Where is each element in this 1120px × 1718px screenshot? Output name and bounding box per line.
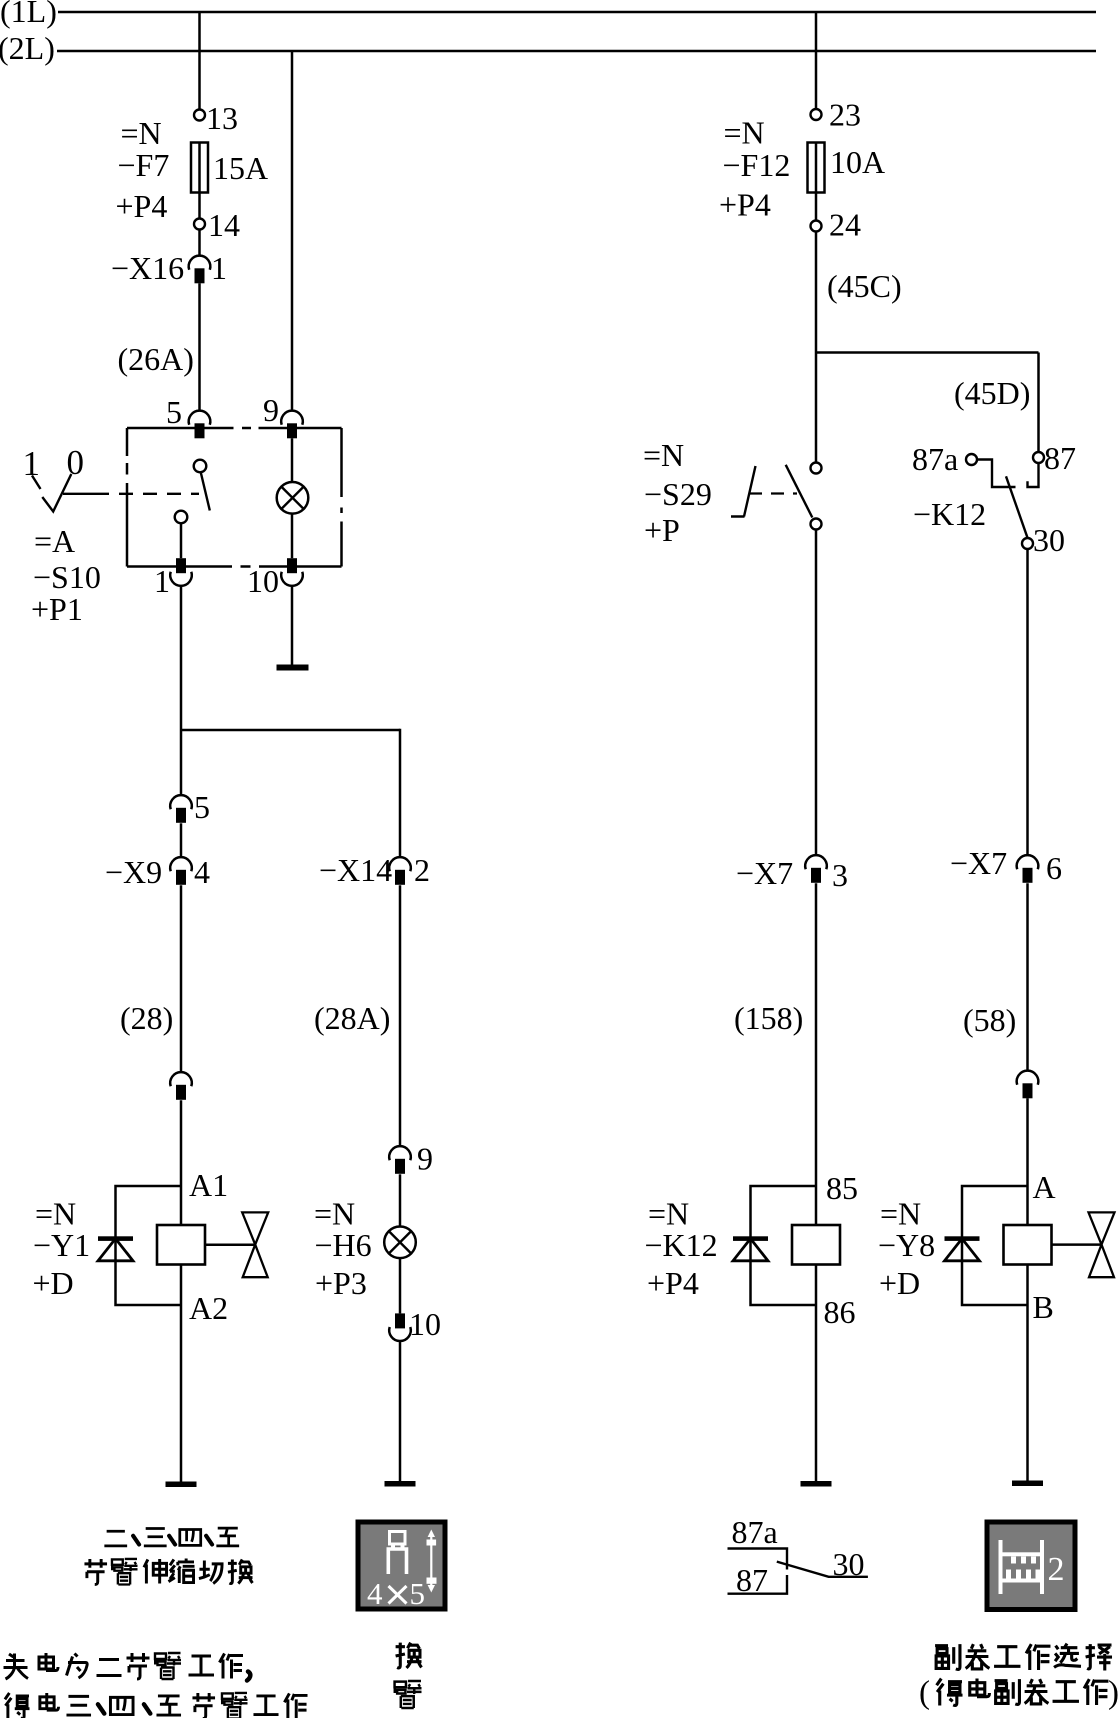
selector actuator symbol — [32, 474, 71, 512]
svg-text:13: 13 — [206, 100, 238, 136]
connector (unnumbered, Y1 branch) — [170, 1072, 192, 1100]
svg-text:4: 4 — [194, 854, 210, 890]
solenoid coil Y1 — [157, 1225, 205, 1265]
wire lamp H6 to connector 10 — [399, 1258, 402, 1313]
wire 14 to connector X16 — [198, 230, 201, 257]
wire 24 down to S29 — [815, 232, 818, 463]
svg-text:−Y1: −Y1 — [33, 1227, 90, 1263]
connector X7 pin 3 — [805, 855, 827, 883]
svg-text:(58): (58) — [963, 1002, 1016, 1038]
svg-text:=N: =N — [121, 115, 162, 151]
svg-text:−H6: −H6 — [315, 1227, 372, 1263]
svg-text:B: B — [1033, 1289, 1054, 1325]
svg-text:+P4: +P4 — [647, 1265, 699, 1301]
wire connector 10 to ground — [399, 1341, 402, 1482]
wire X14 to connector 9 — [399, 885, 402, 1146]
switch S10 contact — [175, 460, 210, 524]
connector pin 9 (H6) — [389, 1146, 411, 1174]
svg-text:+P: +P — [644, 512, 680, 548]
link coil Y1 to valve — [205, 1244, 255, 1247]
wire Y1 to ground — [180, 1265, 183, 1482]
switch S10 enclosure (dash-dot box) — [127, 428, 342, 567]
caption: 副卷工作选择 — [935, 1644, 1112, 1671]
terminal 1 of S10 — [170, 558, 192, 586]
wire lamp to terminal 10 — [291, 514, 294, 559]
svg-text:3: 3 — [832, 857, 848, 893]
svg-text:=N: =N — [643, 437, 684, 473]
connector pin 5 (lower) — [170, 795, 192, 823]
svg-text:5: 5 — [410, 1576, 426, 1611]
svg-text:9: 9 — [417, 1141, 433, 1177]
diode branch loop (Y8) — [962, 1186, 1028, 1305]
indicator lamp in S10 — [277, 482, 309, 514]
caption: 换臂 (change boom) vertical — [395, 1643, 422, 1708]
wire connector to Y8 coil — [1026, 1098, 1029, 1225]
wire terminal 10 to ground — [291, 586, 294, 665]
svg-text:30: 30 — [1033, 522, 1065, 558]
wire connector to Y1 coil — [180, 1100, 183, 1225]
svg-text:+P4: +P4 — [719, 187, 771, 223]
fuse F12 — [808, 143, 825, 193]
lamp H6 — [384, 1227, 416, 1259]
svg-text:−S10: −S10 — [33, 559, 101, 595]
svg-text:5: 5 — [194, 789, 210, 825]
icon: auxiliary winch 2 — [987, 1522, 1075, 1610]
svg-text:5: 5 — [166, 394, 182, 430]
wire connector 9 to lamp H6 — [399, 1174, 402, 1226]
caption: (得电副卷工作) — [919, 1675, 1119, 1711]
svg-text:(28A): (28A) — [314, 1000, 390, 1036]
svg-text:+P4: +P4 — [116, 188, 168, 224]
wire X7-3 to K12 coil — [815, 883, 818, 1225]
connector X16 pin 1 — [189, 256, 211, 284]
wire X16 to switch box — [198, 283, 201, 411]
contact circle 30 — [1022, 538, 1033, 549]
suppressor diode (Y8) — [945, 1236, 980, 1261]
contact circle 87a — [966, 454, 977, 465]
valve symbol (Y1) — [242, 1212, 268, 1277]
svg-text:+P3: +P3 — [315, 1265, 367, 1301]
wire fuse F12 to terminal 24 — [815, 193, 818, 221]
wire fuse F7 to terminal 14 — [198, 193, 201, 219]
svg-text:−K12: −K12 — [913, 496, 986, 532]
svg-text:10: 10 — [247, 563, 279, 599]
svg-text:23: 23 — [829, 97, 861, 133]
svg-text:9: 9 — [263, 392, 279, 428]
wire X9 to lower connector — [180, 885, 183, 1072]
diode branch loop (K12) — [751, 1186, 817, 1305]
connector X7 pin 6 — [1017, 855, 1039, 883]
svg-text:10: 10 — [409, 1306, 441, 1342]
diode branch loop (Y1) — [116, 1186, 182, 1305]
terminal circle 23 — [811, 109, 822, 120]
caption: 节臂伸缩切换 (boom telescope switching) — [84, 1558, 252, 1584]
svg-text:(2L): (2L) — [0, 30, 55, 66]
wire 1L to terminal 23 — [815, 12, 818, 109]
svg-text:6: 6 — [1046, 850, 1062, 886]
ground (H6) — [385, 1481, 416, 1487]
wire 30 to X7-6 — [1026, 549, 1029, 855]
bus 2L — [57, 50, 1096, 53]
function contact blade 30 — [777, 1562, 868, 1577]
svg-text:1: 1 — [211, 250, 227, 286]
link coil Y8 to valve — [1052, 1243, 1102, 1246]
svg-text:+P1: +P1 — [31, 591, 83, 627]
svg-text:(28): (28) — [120, 1000, 173, 1036]
svg-text:85: 85 — [826, 1170, 858, 1206]
valve symbol (Y8) — [1089, 1212, 1115, 1277]
svg-text:24: 24 — [829, 207, 861, 243]
caption: 二、三、四、五 (booms 2,3,4,5) — [104, 1528, 239, 1546]
svg-text:−S29: −S29 — [644, 476, 712, 512]
svg-text:): ) — [1108, 1675, 1119, 1711]
svg-text:−X7: −X7 — [950, 845, 1007, 881]
ground (S10 lamp) — [277, 665, 309, 671]
pushbutton S29 contact — [786, 463, 822, 530]
ground (Y1) — [166, 1482, 197, 1488]
svg-text:87: 87 — [1044, 440, 1076, 476]
svg-text:A2: A2 — [189, 1290, 228, 1326]
svg-text:1: 1 — [154, 563, 170, 599]
contact circle 87 — [1033, 452, 1044, 463]
terminal 10 of S10 — [281, 558, 303, 586]
svg-text:2: 2 — [1048, 1551, 1065, 1588]
svg-text:10A: 10A — [830, 144, 885, 180]
function contact 87 seat — [728, 1575, 788, 1594]
wire terminal 9 to lamp — [291, 438, 294, 482]
svg-text:(45C): (45C) — [827, 268, 902, 304]
caption: 得电三、四、五节臂工作 — [5, 1693, 308, 1718]
relay coil K12 — [792, 1225, 840, 1265]
svg-text:15A: 15A — [213, 150, 268, 186]
ground (K12) — [801, 1481, 832, 1487]
fuse F7 — [191, 143, 208, 193]
svg-text:−X16: −X16 — [111, 250, 184, 286]
svg-text:(158): (158) — [734, 1000, 803, 1036]
connector (unnumbered, Y8 branch) — [1017, 1071, 1039, 1099]
svg-text:−X7: −X7 — [736, 855, 793, 891]
S29 actuator dashed link — [749, 492, 797, 494]
svg-text:87a: 87a — [732, 1514, 778, 1550]
svg-text:−F7: −F7 — [118, 147, 170, 183]
wire S29 to X7-3 — [815, 530, 818, 856]
K12 contact feed drop — [1037, 353, 1040, 452]
suppressor diode (Y1) — [98, 1236, 133, 1261]
svg-text:−F12: −F12 — [723, 147, 791, 183]
svg-text:=A: =A — [34, 523, 75, 559]
wire X7-6 to connector — [1026, 883, 1029, 1070]
wire 2L to terminal 9 — [291, 51, 294, 411]
svg-text:(: ( — [919, 1675, 930, 1711]
connector pin 10 (H6) — [389, 1313, 411, 1341]
svg-text:A1: A1 — [189, 1167, 228, 1203]
svg-text:+D: +D — [33, 1265, 74, 1301]
K12 contact seats — [977, 460, 1015, 488]
wire Y8 to ground — [1026, 1265, 1029, 1481]
suppressor diode (K12) — [733, 1236, 768, 1261]
terminal circle 14 — [194, 219, 205, 230]
function contact 87a seat — [728, 1549, 788, 1570]
wire 1L to terminal 13 — [198, 12, 201, 110]
S29 manual actuator lever — [731, 466, 756, 517]
svg-text:87a: 87a — [912, 441, 958, 477]
svg-text:86: 86 — [824, 1294, 856, 1330]
wire contact to terminal 1 — [180, 523, 183, 558]
wire terminal 1 down — [180, 586, 183, 796]
icon: telescope mode 4x5 — [358, 1522, 445, 1611]
svg-text:−X14: −X14 — [319, 852, 392, 888]
terminal 9 of S10 — [281, 411, 303, 439]
bus 1L — [58, 11, 1096, 14]
svg-text:4: 4 — [367, 1576, 383, 1611]
terminal circle 24 — [811, 221, 822, 232]
K12 contact blade — [1006, 476, 1028, 538]
svg-text:(26A): (26A) — [118, 341, 194, 377]
terminal circle 13 — [194, 110, 205, 121]
svg-text:30: 30 — [833, 1546, 865, 1582]
H6 column drop — [399, 729, 402, 857]
svg-text:=N: =N — [724, 115, 765, 151]
connector X9 pin 4 — [170, 857, 192, 885]
svg-text:−K12: −K12 — [645, 1227, 718, 1263]
svg-text:(45D): (45D) — [954, 375, 1030, 411]
svg-text:−Y8: −Y8 — [878, 1227, 935, 1263]
svg-text:1: 1 — [23, 444, 41, 483]
svg-text:+D: +D — [879, 1265, 920, 1301]
svg-text:14: 14 — [208, 207, 240, 243]
svg-text:2: 2 — [414, 852, 430, 888]
svg-text:−X9: −X9 — [105, 854, 162, 890]
actuator link dashed line — [63, 493, 95, 495]
ground (Y8) — [1012, 1481, 1043, 1487]
wire K12 to ground — [815, 1265, 818, 1482]
svg-text:A: A — [1033, 1169, 1056, 1205]
wire between connectors 5 and X9 — [180, 823, 183, 857]
terminal 5 of S10 — [189, 411, 211, 439]
branch wire (45D) — [816, 351, 1039, 354]
connector X14 pin 2 — [389, 857, 411, 885]
solenoid coil Y8 — [1004, 1225, 1052, 1265]
svg-text:(1L): (1L) — [0, 0, 57, 29]
branch wire to H6 column — [181, 729, 400, 732]
caption: 失电为二节臂工作， — [4, 1653, 251, 1681]
